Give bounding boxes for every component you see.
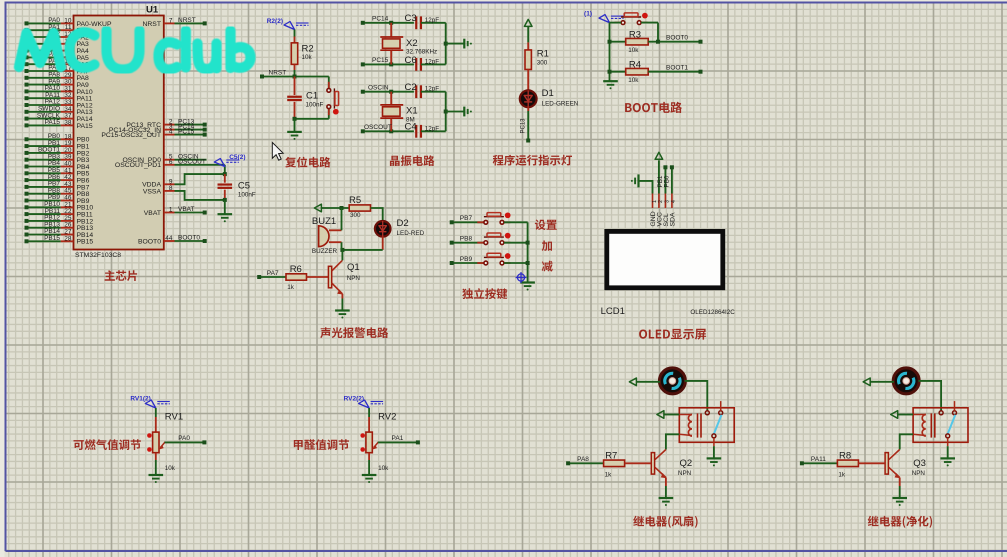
svg-text:(1): (1) bbox=[584, 11, 592, 18]
svg-text:C4: C4 bbox=[405, 122, 417, 133]
svg-text:NPN: NPN bbox=[347, 275, 361, 282]
svg-text:PA7: PA7 bbox=[267, 270, 279, 277]
svg-text:8: 8 bbox=[169, 185, 173, 192]
svg-text:BOOT1: BOOT1 bbox=[666, 64, 688, 71]
svg-text:PB15: PB15 bbox=[44, 235, 60, 242]
svg-text:7: 7 bbox=[169, 17, 173, 24]
svg-text:PA15: PA15 bbox=[45, 119, 61, 126]
svg-text:BUZ1: BUZ1 bbox=[312, 216, 336, 227]
svg-text:C3: C3 bbox=[405, 13, 417, 24]
svg-text:10k: 10k bbox=[628, 77, 639, 84]
svg-text:4: 4 bbox=[169, 129, 173, 136]
svg-text:PC15: PC15 bbox=[372, 57, 389, 64]
svg-text:12pF: 12pF bbox=[425, 58, 440, 65]
svg-text:VSSA: VSSA bbox=[143, 188, 162, 195]
svg-text:100nF: 100nF bbox=[306, 101, 324, 108]
svg-text:NPN: NPN bbox=[678, 470, 692, 477]
svg-text:300: 300 bbox=[350, 212, 361, 219]
svg-text:R3: R3 bbox=[629, 30, 641, 41]
svg-text:R7: R7 bbox=[605, 450, 617, 461]
svg-text:VBAT: VBAT bbox=[178, 206, 195, 213]
svg-text:PB0: PB0 bbox=[663, 175, 670, 187]
svg-text:44: 44 bbox=[165, 235, 173, 242]
svg-text:BOOT0: BOOT0 bbox=[138, 238, 161, 245]
svg-text:C5(2): C5(2) bbox=[229, 154, 245, 161]
svg-text:PA0: PA0 bbox=[178, 435, 190, 442]
svg-text:C5: C5 bbox=[238, 181, 250, 192]
svg-text:SDA: SDA bbox=[670, 212, 677, 226]
svg-text:R2(2): R2(2) bbox=[267, 18, 283, 25]
svg-text:10k: 10k bbox=[628, 47, 639, 54]
svg-text:1k: 1k bbox=[605, 472, 613, 479]
svg-text:300: 300 bbox=[537, 60, 548, 67]
svg-text:BUZZER: BUZZER bbox=[312, 248, 338, 255]
svg-text:LCD1: LCD1 bbox=[601, 306, 625, 317]
svg-text:R4: R4 bbox=[629, 60, 641, 71]
svg-text:6: 6 bbox=[169, 159, 173, 166]
svg-text:1k: 1k bbox=[287, 284, 295, 291]
svg-text:NRST: NRST bbox=[269, 70, 287, 77]
svg-text:R5: R5 bbox=[349, 195, 361, 206]
svg-text:C2: C2 bbox=[405, 82, 417, 93]
svg-text:OSCOUT: OSCOUT bbox=[178, 159, 206, 166]
svg-text:LED-GREEN: LED-GREEN bbox=[542, 101, 579, 108]
svg-text:RV1: RV1 bbox=[165, 411, 183, 422]
svg-text:OSCOUT_PD1: OSCOUT_PD1 bbox=[115, 162, 161, 169]
svg-text:U1: U1 bbox=[146, 5, 159, 16]
svg-text:1k: 1k bbox=[838, 472, 846, 479]
svg-text:LED-RED: LED-RED bbox=[397, 230, 425, 237]
svg-text:PB7: PB7 bbox=[460, 215, 473, 222]
svg-text:BOOT0: BOOT0 bbox=[178, 235, 200, 242]
svg-text:PB9: PB9 bbox=[460, 256, 473, 263]
svg-text:VBAT: VBAT bbox=[144, 210, 161, 217]
svg-text:10k: 10k bbox=[165, 465, 176, 472]
svg-text:PB8: PB8 bbox=[460, 235, 473, 242]
svg-text:RV1(2): RV1(2) bbox=[130, 396, 150, 403]
svg-text:PA8: PA8 bbox=[577, 456, 589, 463]
svg-text:X1: X1 bbox=[406, 106, 418, 117]
svg-text:STM32F103C8: STM32F103C8 bbox=[75, 252, 121, 259]
svg-text:PA15: PA15 bbox=[77, 123, 93, 130]
svg-text:OSCOUT: OSCOUT bbox=[364, 124, 392, 131]
svg-text:100nF: 100nF bbox=[238, 192, 256, 199]
svg-text:RV2(2): RV2(2) bbox=[344, 396, 364, 403]
svg-text:PC15-OSC32_OUT: PC15-OSC32_OUT bbox=[101, 132, 161, 139]
svg-text:12pF: 12pF bbox=[425, 86, 440, 93]
svg-text:PC14: PC14 bbox=[372, 16, 389, 23]
svg-text:R1: R1 bbox=[537, 48, 549, 59]
svg-text:3: 3 bbox=[665, 200, 671, 203]
svg-text:NRST: NRST bbox=[142, 21, 161, 28]
svg-text:R8: R8 bbox=[839, 450, 851, 461]
svg-text:R6: R6 bbox=[290, 264, 302, 275]
svg-text:X2: X2 bbox=[406, 38, 418, 49]
svg-text:12pF: 12pF bbox=[425, 17, 440, 24]
svg-text:Q3: Q3 bbox=[913, 458, 926, 469]
svg-text:10k: 10k bbox=[302, 54, 313, 61]
svg-text:PC13: PC13 bbox=[521, 118, 527, 134]
svg-text:10k: 10k bbox=[378, 465, 389, 472]
svg-text:OLED12864I2C: OLED12864I2C bbox=[690, 309, 735, 316]
svg-text:Q1: Q1 bbox=[347, 262, 360, 273]
svg-text:2: 2 bbox=[658, 200, 664, 203]
svg-text:C1: C1 bbox=[306, 91, 318, 102]
svg-text:OSCIN: OSCIN bbox=[368, 84, 389, 91]
svg-text:BOOT0: BOOT0 bbox=[666, 34, 688, 41]
svg-text:38: 38 bbox=[64, 119, 72, 126]
svg-text:PC15: PC15 bbox=[178, 128, 195, 135]
svg-text:D2: D2 bbox=[397, 218, 409, 229]
svg-text:R2: R2 bbox=[302, 43, 314, 54]
svg-text:PA1: PA1 bbox=[392, 435, 404, 442]
svg-text:NRST: NRST bbox=[178, 17, 196, 24]
svg-text:PB15: PB15 bbox=[77, 239, 94, 246]
svg-text:Q2: Q2 bbox=[680, 458, 693, 469]
svg-text:1: 1 bbox=[169, 207, 173, 214]
svg-text:D1: D1 bbox=[542, 88, 554, 99]
svg-text:RV2: RV2 bbox=[378, 411, 396, 422]
svg-text:28: 28 bbox=[64, 235, 72, 242]
svg-text:1: 1 bbox=[652, 200, 658, 203]
svg-text:4: 4 bbox=[671, 200, 677, 203]
svg-text:C6: C6 bbox=[405, 55, 417, 66]
svg-text:NPN: NPN bbox=[912, 470, 926, 477]
svg-text:PA11: PA11 bbox=[811, 456, 826, 463]
svg-text:12pF: 12pF bbox=[425, 125, 440, 132]
